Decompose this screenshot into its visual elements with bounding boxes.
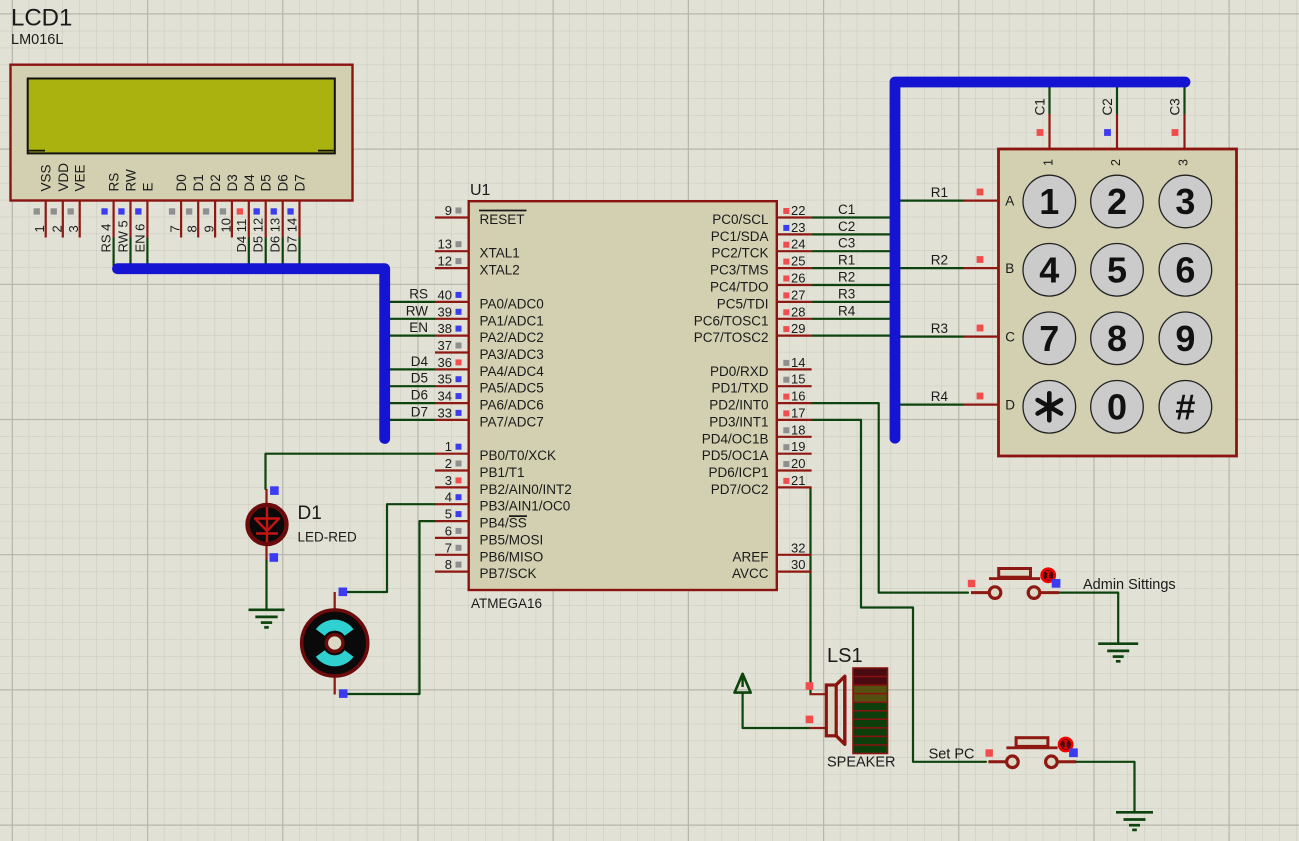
svg-text:A: A: [1005, 194, 1014, 209]
net label R1: [931, 185, 948, 200]
keypad key #: [1159, 381, 1212, 434]
push button Admin Sittings: [971, 569, 1059, 599]
keypad row pin C: [964, 325, 999, 337]
LCD1 screen: [28, 79, 335, 154]
arrow terminal (signal): [735, 674, 751, 693]
svg-text:R1: R1: [838, 253, 855, 268]
svg-text:1: 1: [445, 439, 452, 454]
svg-text:R2: R2: [838, 270, 855, 285]
svg-text:RESET: RESET: [480, 212, 525, 227]
U1 pin 1 (PB0/T0/XCK): [435, 439, 556, 463]
net label R1: [838, 253, 855, 268]
svg-text:LED-RED: LED-RED: [298, 530, 358, 545]
svg-text:24: 24: [791, 237, 805, 252]
U1 pin 9 (RESET): [435, 203, 527, 227]
keypad key 7: [1023, 312, 1076, 365]
wire Set PC button to ground: [1057, 762, 1134, 812]
LED D1: [248, 489, 287, 560]
svg-text:R4: R4: [838, 303, 856, 318]
keypad column pin C3: [1172, 114, 1185, 149]
svg-text:35: 35: [438, 372, 452, 387]
svg-text:0: 0: [1107, 386, 1127, 427]
svg-text:D1: D1: [191, 174, 206, 191]
wire bus to keypad column C1: [1048, 86, 1050, 114]
svg-text:D4 11: D4 11: [234, 219, 249, 253]
U1 pin 18 (PD4/OC1B): [702, 422, 812, 446]
wire bus to keypad column C2: [1116, 86, 1118, 114]
svg-text:PA4/ADC4: PA4/ADC4: [480, 364, 545, 379]
wire bus to U1 RW: [385, 318, 435, 320]
svg-text:8: 8: [1107, 318, 1127, 359]
node label Admin Sittings: [1083, 577, 1176, 593]
svg-text:17: 17: [791, 405, 805, 420]
svg-text:PB3/AIN1/OC0: PB3/AIN1/OC0: [480, 499, 571, 514]
U1 pin 28 (PC6/TOSC1): [694, 304, 812, 328]
junction Set PC button right: [1069, 748, 1078, 757]
svg-text:AVCC: AVCC: [732, 566, 769, 581]
U1 pin 2 (PB1/T1): [435, 456, 525, 480]
junction Admin button right: [1052, 579, 1061, 588]
U1 pin 13 (XTAL1): [435, 237, 520, 261]
U1 pin 15 (PD1/TXD): [711, 372, 811, 396]
svg-text:LS1: LS1: [827, 645, 863, 667]
svg-text:B: B: [1005, 261, 1014, 276]
svg-text:LCD1: LCD1: [11, 5, 72, 32]
LCD1 pin 9: [202, 202, 217, 238]
svg-text:PB0/T0/XCK: PB0/T0/XCK: [480, 448, 557, 463]
svg-text:ATMEGA16: ATMEGA16: [471, 596, 542, 611]
svg-text:27: 27: [791, 287, 805, 302]
U1 pin 24 (PC2/TCK): [711, 237, 811, 261]
svg-text:RS 4: RS 4: [99, 224, 114, 253]
U1 value ATMEGA16: [471, 596, 542, 611]
svg-text:VEE: VEE: [73, 164, 88, 191]
svg-text:RW: RW: [124, 169, 139, 192]
svg-text:9: 9: [1175, 318, 1195, 359]
svg-text:C2: C2: [838, 219, 855, 234]
svg-text:D7: D7: [293, 174, 308, 191]
svg-text:30: 30: [791, 557, 805, 572]
svg-text:18: 18: [791, 422, 805, 437]
svg-text:13: 13: [438, 237, 452, 252]
wire LCD pin 13 (D6) to bus: [282, 238, 284, 267]
U1 pin 17 (PD3/INT1): [709, 405, 811, 429]
node label Set PC: [929, 746, 975, 762]
LED D1 reference label: [298, 503, 322, 524]
LCD1 pin 8: [185, 202, 200, 238]
svg-text:PC2/TCK: PC2/TCK: [711, 246, 768, 261]
svg-text:AREF: AREF: [732, 549, 768, 564]
svg-text:40: 40: [438, 287, 452, 302]
svg-text:C1: C1: [838, 202, 855, 217]
net label R4: [931, 389, 949, 404]
wire LCD pin 11 (D4) to bus: [248, 238, 250, 267]
svg-text:XTAL2: XTAL2: [480, 263, 520, 278]
motor: [302, 592, 368, 695]
svg-text:4: 4: [445, 490, 452, 505]
pin state square Set PC button left: [986, 749, 993, 756]
svg-text:3: 3: [66, 225, 81, 232]
svg-text:2: 2: [445, 456, 452, 471]
wire bus to keypad row R1: [899, 200, 964, 202]
svg-text:XTAL1: XTAL1: [480, 246, 520, 261]
pin state square LS1 pin 1: [806, 682, 814, 690]
U1 pin 39 (PA1/ADC1): [435, 304, 544, 328]
svg-text:PB7/SCK: PB7/SCK: [480, 566, 537, 581]
svg-text:38: 38: [438, 321, 452, 336]
LCD1 value LM016L: [11, 32, 63, 48]
wire arrow terminal to speaker pin 2: [743, 693, 810, 728]
keypad key 8: [1091, 312, 1144, 365]
svg-text:RS: RS: [107, 173, 122, 192]
LCD1 pin 14: [285, 202, 300, 253]
svg-text:D4: D4: [411, 354, 429, 369]
svg-text:D5: D5: [259, 174, 274, 191]
U1 pin 37 (PA3/ADC3): [435, 338, 544, 362]
keypad body: [999, 149, 1237, 456]
wire bus to U1 D6: [385, 402, 435, 404]
speaker LS1 value SPEAKER: [827, 755, 896, 771]
svg-text:PC4/TDO: PC4/TDO: [710, 280, 769, 295]
svg-text:D0: D0: [174, 174, 189, 191]
U1 pin 29 (PC7/TOSC2): [694, 321, 812, 345]
wire Admin button to ground: [1059, 593, 1118, 643]
svg-text:21: 21: [791, 473, 805, 488]
LCD1 pin name D7: [293, 174, 308, 191]
svg-text:RW 5: RW 5: [116, 220, 131, 252]
svg-text:1: 1: [32, 225, 47, 232]
svg-text:2: 2: [1109, 159, 1123, 166]
push button Set PC: [988, 738, 1076, 768]
wire U1 PD3/INT1 pin17 to Set PC button: [812, 420, 986, 762]
svg-text:7: 7: [445, 540, 452, 555]
svg-text:D7 14: D7 14: [285, 218, 300, 253]
svg-text:PB5/MOSI: PB5/MOSI: [480, 532, 544, 547]
svg-text:PD3/INT1: PD3/INT1: [709, 414, 768, 429]
svg-text:4: 4: [1039, 249, 1059, 290]
svg-text:12: 12: [438, 254, 452, 269]
svg-text:3: 3: [445, 473, 452, 488]
net label D5: [411, 371, 428, 386]
LCD1 pin name VSS: [39, 164, 54, 191]
U1 pin 23 (PC1/SDA): [711, 220, 812, 244]
wire bus to U1 EN: [385, 335, 435, 337]
svg-text:C3: C3: [838, 236, 855, 251]
svg-text:D6: D6: [411, 388, 428, 403]
keypad key 9: [1159, 312, 1212, 365]
svg-text:9: 9: [445, 203, 452, 218]
svg-text:R4: R4: [931, 389, 949, 404]
svg-text:R3: R3: [931, 321, 948, 336]
svg-text:PB1/T1: PB1/T1: [480, 465, 525, 480]
U1 pin 40 (PA0/ADC0): [435, 287, 544, 311]
keypad row pin A: [964, 189, 999, 201]
junction motor top: [339, 588, 348, 597]
wire U1 PB0 pin1 to LED D1: [266, 454, 436, 489]
speaker LS1: [809, 668, 887, 754]
svg-text:Admin Sittings: Admin Sittings: [1083, 577, 1176, 593]
svg-text:PD7/OC2: PD7/OC2: [711, 482, 769, 497]
wire LED D1 cathode to ground: [265, 560, 267, 610]
svg-text:E: E: [140, 182, 155, 191]
svg-text:PB4/SS: PB4/SS: [480, 516, 527, 531]
LCD1 pin 3: [66, 202, 81, 238]
svg-text:PB6/MISO: PB6/MISO: [480, 549, 544, 564]
svg-text:VDD: VDD: [56, 163, 71, 192]
U1 pin 6 (PB5/MOSI): [435, 523, 543, 547]
svg-text:PB2/AIN0/INT2: PB2/AIN0/INT2: [480, 482, 572, 497]
pin state square LS1 pin 2: [806, 716, 814, 724]
U1 pin 35 (PA5/ADC5): [435, 372, 544, 396]
LCD1 pin name D2: [208, 174, 223, 191]
wire LCD pin 12 (D5) to bus: [265, 238, 267, 267]
svg-text:8: 8: [445, 557, 452, 572]
svg-text:10: 10: [218, 218, 233, 232]
svg-text:D5 12: D5 12: [251, 218, 266, 253]
wire U1 right pin to bus at y=318.8: [812, 318, 891, 320]
keypad row pin D: [964, 393, 999, 405]
svg-text:#: #: [1175, 386, 1195, 427]
svg-text:RS: RS: [409, 286, 428, 301]
svg-text:25: 25: [791, 254, 805, 269]
wire bus to U1 RS: [385, 301, 435, 303]
svg-text:EN 6: EN 6: [132, 224, 147, 253]
wire LCD pin 14 (D7) to bus: [298, 238, 300, 267]
keypad column number 2: [1109, 159, 1123, 166]
svg-text:PD4/OC1B: PD4/OC1B: [702, 431, 769, 446]
LCD1 pin 11: [234, 202, 249, 253]
net label RW: [406, 303, 429, 318]
LCD1 pin name D5: [259, 174, 274, 191]
keypad row letter C: [1005, 330, 1015, 345]
svg-text:PA0/ADC0: PA0/ADC0: [480, 296, 544, 311]
LCD1 pin name D6: [276, 174, 291, 191]
svg-text:D5: D5: [411, 371, 428, 386]
svg-text:3: 3: [1177, 159, 1191, 166]
U1 pin 25 (PC3/TMS): [710, 254, 812, 278]
svg-text:29: 29: [791, 321, 805, 336]
LCD1 pin 13: [268, 202, 283, 253]
LCD1 pin 4: [99, 202, 114, 253]
LCD1 label: [11, 5, 72, 32]
keypad key 2: [1091, 175, 1144, 228]
svg-text:PA3/ADC3: PA3/ADC3: [480, 347, 544, 362]
net label R4: [838, 303, 856, 318]
svg-text:PC6/TOSC1: PC6/TOSC1: [694, 313, 769, 328]
ground (below D1): [249, 610, 285, 628]
keypad key 3: [1159, 175, 1212, 228]
svg-text:9: 9: [202, 225, 217, 232]
net label C2: [838, 219, 855, 234]
svg-text:5: 5: [1107, 249, 1127, 290]
keypad column pin C1: [1037, 114, 1050, 149]
U1 pin 34 (PA6/ADC6): [435, 389, 544, 413]
svg-text:C2: C2: [1100, 98, 1115, 115]
svg-text:20: 20: [791, 456, 805, 471]
svg-text:VSS: VSS: [39, 164, 54, 191]
svg-text:PC5/TDI: PC5/TDI: [717, 296, 769, 311]
wire U1 PB3 pin4 to motor top: [343, 504, 435, 592]
wire U1 PB4 pin5 to motor bottom: [343, 521, 435, 694]
LCD1 body: [11, 65, 353, 201]
LCD1 pin 2: [49, 202, 64, 238]
svg-text:D1: D1: [298, 503, 322, 524]
LCD1 pin name D0: [174, 174, 189, 191]
net label C2: [1100, 98, 1115, 115]
svg-text:37: 37: [438, 338, 452, 353]
svg-text:U1: U1: [470, 182, 491, 199]
LCD1 pin 1: [32, 202, 47, 238]
svg-text:EN: EN: [409, 320, 428, 335]
keypad row letter A: [1005, 194, 1014, 209]
wire U1 PD2/INT0 pin16 to Admin button: [812, 403, 968, 592]
svg-text:D6 13: D6 13: [268, 218, 283, 253]
svg-text:34: 34: [438, 389, 452, 404]
LCD1 pin name D3: [225, 174, 240, 191]
junction D1 anode: [270, 486, 279, 495]
keypad key 1: [1023, 175, 1076, 228]
op-amp U1 reference label: [470, 182, 491, 199]
net label D6: [411, 388, 428, 403]
svg-text:R3: R3: [838, 286, 855, 301]
svg-text:C: C: [1005, 330, 1015, 345]
wire bus to U1 D7: [385, 419, 435, 421]
LCD1 pin 6: [132, 202, 147, 253]
svg-text:PC7/TOSC2: PC7/TOSC2: [694, 330, 769, 345]
wire U1 right pin to bus at y=251.2: [812, 250, 891, 252]
svg-text:RW: RW: [406, 303, 429, 318]
pin state square Admin button left: [968, 580, 975, 587]
net label R3: [931, 321, 948, 336]
svg-text:R1: R1: [931, 185, 948, 200]
net label D7: [411, 404, 428, 419]
svg-text:1: 1: [1039, 181, 1059, 222]
U1 pin 16 (PD2/INT0): [709, 389, 811, 413]
U1 pin 5 (PB4/SS): [435, 507, 527, 531]
LED D1 value LED-RED: [298, 530, 358, 545]
svg-text:D4: D4: [242, 174, 257, 192]
svg-text:SPEAKER: SPEAKER: [827, 755, 896, 771]
U1 pin 19 (PD5/OC1A): [702, 439, 812, 463]
net label C1: [1033, 98, 1048, 115]
LCD1 pin name D4: [242, 174, 257, 192]
svg-text:R2: R2: [931, 253, 948, 268]
bus U1 to keypad: [895, 82, 1185, 438]
svg-text:C1: C1: [1033, 98, 1048, 115]
wire LCD pin 5 (RW) to bus: [129, 238, 131, 267]
svg-text:19: 19: [791, 439, 805, 454]
wire bus to keypad row R3: [899, 336, 964, 338]
U1 pin 3 (PB2/AIN0/INT2): [435, 473, 572, 497]
LCD1 pin name E: [140, 182, 155, 191]
keypad key 0: [1091, 381, 1144, 434]
svg-text:PA5/ADC5: PA5/ADC5: [480, 381, 544, 396]
U1 pin 27 (PC5/TDI): [717, 287, 812, 311]
U1 pin 36 (PA4/ADC4): [435, 355, 544, 379]
svg-text:2: 2: [1107, 181, 1127, 222]
keypad row letter B: [1005, 261, 1014, 276]
net label C3: [1168, 98, 1183, 115]
U1 pin 21 (PD7/OC2): [711, 473, 812, 497]
keypad key 6: [1159, 243, 1212, 296]
svg-text:8: 8: [185, 225, 200, 232]
svg-text:15: 15: [791, 372, 805, 387]
LCD1 pin 7: [168, 202, 183, 238]
LCD1 pin name RW: [124, 169, 139, 192]
LCD1 pin name RS: [107, 173, 122, 192]
net label RS: [409, 286, 428, 301]
svg-text:PA6/ADC6: PA6/ADC6: [480, 398, 544, 413]
svg-text:PD6/ICP1: PD6/ICP1: [708, 465, 768, 480]
svg-text:6: 6: [1175, 249, 1195, 290]
keypad key *: [1023, 381, 1076, 434]
LCD1 pin 10: [218, 202, 233, 238]
U1 pin 33 (PA7/ADC7): [435, 405, 544, 429]
svg-text:23: 23: [791, 220, 805, 235]
svg-text:PC0/SCL: PC0/SCL: [712, 212, 769, 227]
wire U1 right pin to bus at y=268.1: [812, 267, 891, 269]
U1 pin 26 (PC4/TDO): [710, 271, 812, 295]
keypad row pin B: [964, 256, 999, 268]
svg-text:Set PC: Set PC: [929, 746, 975, 762]
svg-text:LM016L: LM016L: [11, 32, 63, 48]
svg-text:PD5/OC1A: PD5/OC1A: [702, 448, 769, 463]
svg-text:32: 32: [791, 540, 805, 555]
svg-text:D2: D2: [208, 174, 223, 191]
U1 pin 38 (PA2/ADC2): [435, 321, 544, 345]
svg-text:D6: D6: [276, 174, 291, 191]
svg-text:22: 22: [791, 203, 805, 218]
bus LCD to U1: [118, 269, 385, 439]
wire U1 PD7/OC2 pin21 to speaker LS1: [809, 487, 811, 694]
net label R3: [838, 286, 855, 301]
speaker LS1 reference label: [827, 645, 863, 667]
LCD1 pin 12: [251, 202, 266, 253]
svg-text:7: 7: [1039, 318, 1059, 359]
svg-text:7: 7: [168, 225, 183, 232]
wire bus to U1 D4: [385, 368, 435, 370]
svg-text:14: 14: [791, 355, 805, 370]
svg-text:PA7/ADC7: PA7/ADC7: [480, 414, 544, 429]
svg-text:3: 3: [1175, 181, 1195, 222]
svg-text:1: 1: [1042, 159, 1056, 166]
svg-text:D7: D7: [411, 404, 428, 419]
wire LCD pin 6 (EN) to bus: [146, 238, 148, 267]
net label EN: [409, 320, 428, 335]
wire bus to U1 D5: [385, 385, 435, 387]
wire U1 right pin to bus at y=335.6: [812, 335, 891, 337]
wire bus to keypad row R4: [899, 404, 964, 406]
svg-text:6: 6: [445, 523, 452, 538]
junction motor bottom: [339, 689, 348, 698]
svg-text:26: 26: [791, 271, 805, 286]
net label D4: [411, 354, 429, 369]
wire bus to keypad row R2: [899, 267, 964, 269]
U1 body: [469, 201, 777, 590]
svg-text:PD2/INT0: PD2/INT0: [709, 398, 768, 413]
svg-text:PC1/SDA: PC1/SDA: [711, 229, 769, 244]
LCD1 pin 5: [116, 202, 131, 253]
svg-text:33: 33: [438, 405, 452, 420]
keypad key 5: [1091, 243, 1144, 296]
wire bus to keypad column C3: [1183, 86, 1185, 114]
svg-text:2: 2: [49, 225, 64, 232]
U1 pin 30 (AVCC): [732, 557, 812, 581]
wire LCD pin 4 (RS) to bus: [112, 238, 114, 267]
wire U1 right pin to bus at y=301.9: [812, 301, 891, 303]
U1 pin 20 (PD6/ICP1): [708, 456, 811, 480]
U1 pin 7 (PB6/MISO): [435, 540, 543, 564]
